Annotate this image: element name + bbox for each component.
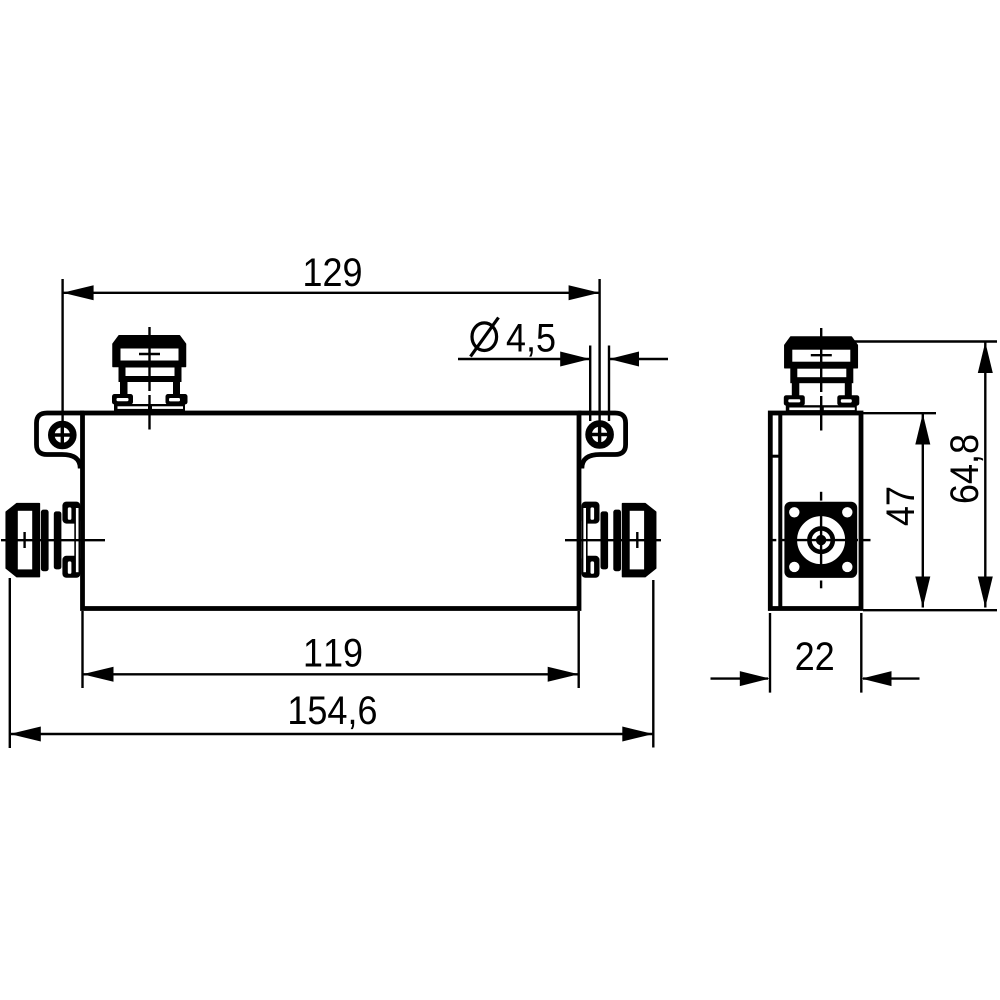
dimension 22 extension line left	[769, 613, 771, 693]
dimension text 119	[306, 639, 362, 667]
left screw hole	[51, 424, 73, 446]
dimension line 22	[711, 671, 920, 686]
diameter symbol	[471, 318, 499, 357]
side view ear edge tick	[768, 455, 780, 458]
dimension 119 extension line right	[578, 611, 580, 688]
dimension text 129	[305, 258, 361, 286]
front top connector center tick	[139, 353, 160, 355]
flange vertical centerline	[820, 492, 822, 589]
hole tangent extension line left	[589, 346, 591, 422]
dimension 64,8 top extension line	[848, 340, 997, 342]
right mounting ear	[578, 413, 626, 469]
dimension 154,6 extension line left	[9, 578, 11, 748]
right connector center tick	[636, 532, 638, 548]
dimension line 4,5 right part	[609, 352, 668, 367]
left connector centerline	[1, 539, 105, 541]
dimension 129 extension line left	[61, 279, 63, 422]
right N connector (mirrored)	[582, 502, 656, 578]
dimension line 154,6	[10, 727, 654, 742]
dimension text 4,5	[507, 324, 555, 357]
side top connector centerline	[820, 328, 822, 431]
left connector center tick	[23, 532, 25, 548]
dimension 119 extension line left	[81, 611, 83, 688]
front top connector centerline	[148, 327, 150, 430]
bottom connector flange	[784, 502, 857, 578]
side view body	[770, 413, 861, 609]
dimension line 4,5 left part	[458, 352, 590, 367]
dimension line 119	[83, 667, 579, 682]
dimension 22 extension line right	[860, 613, 862, 693]
side view inner edge line	[778, 411, 782, 608]
dimension text 47	[887, 488, 915, 525]
dimension text 22	[797, 642, 833, 670]
dimension 129 extension line right	[598, 279, 600, 421]
dimension 154,6 extension line right	[652, 580, 654, 748]
top connector front view	[112, 336, 188, 411]
left N connector	[6, 502, 80, 578]
dimension 47 top extension line	[862, 412, 936, 414]
right connector centerline	[565, 539, 661, 541]
dimension line 47	[915, 414, 930, 608]
coupler body front view	[83, 413, 580, 609]
right screw hole	[589, 424, 611, 446]
dimension text 64,8	[950, 436, 983, 503]
dimension line 64,8	[978, 342, 993, 608]
hole tangent extension line right	[608, 346, 610, 422]
top connector side view	[784, 337, 860, 412]
left mounting ear	[37, 413, 85, 469]
bottom extension line shared	[863, 609, 997, 611]
flange horizontal centerline	[770, 539, 871, 541]
dimension text 154,6	[290, 696, 376, 729]
side top connector center tick	[811, 354, 832, 356]
dimension line 129	[63, 285, 600, 300]
